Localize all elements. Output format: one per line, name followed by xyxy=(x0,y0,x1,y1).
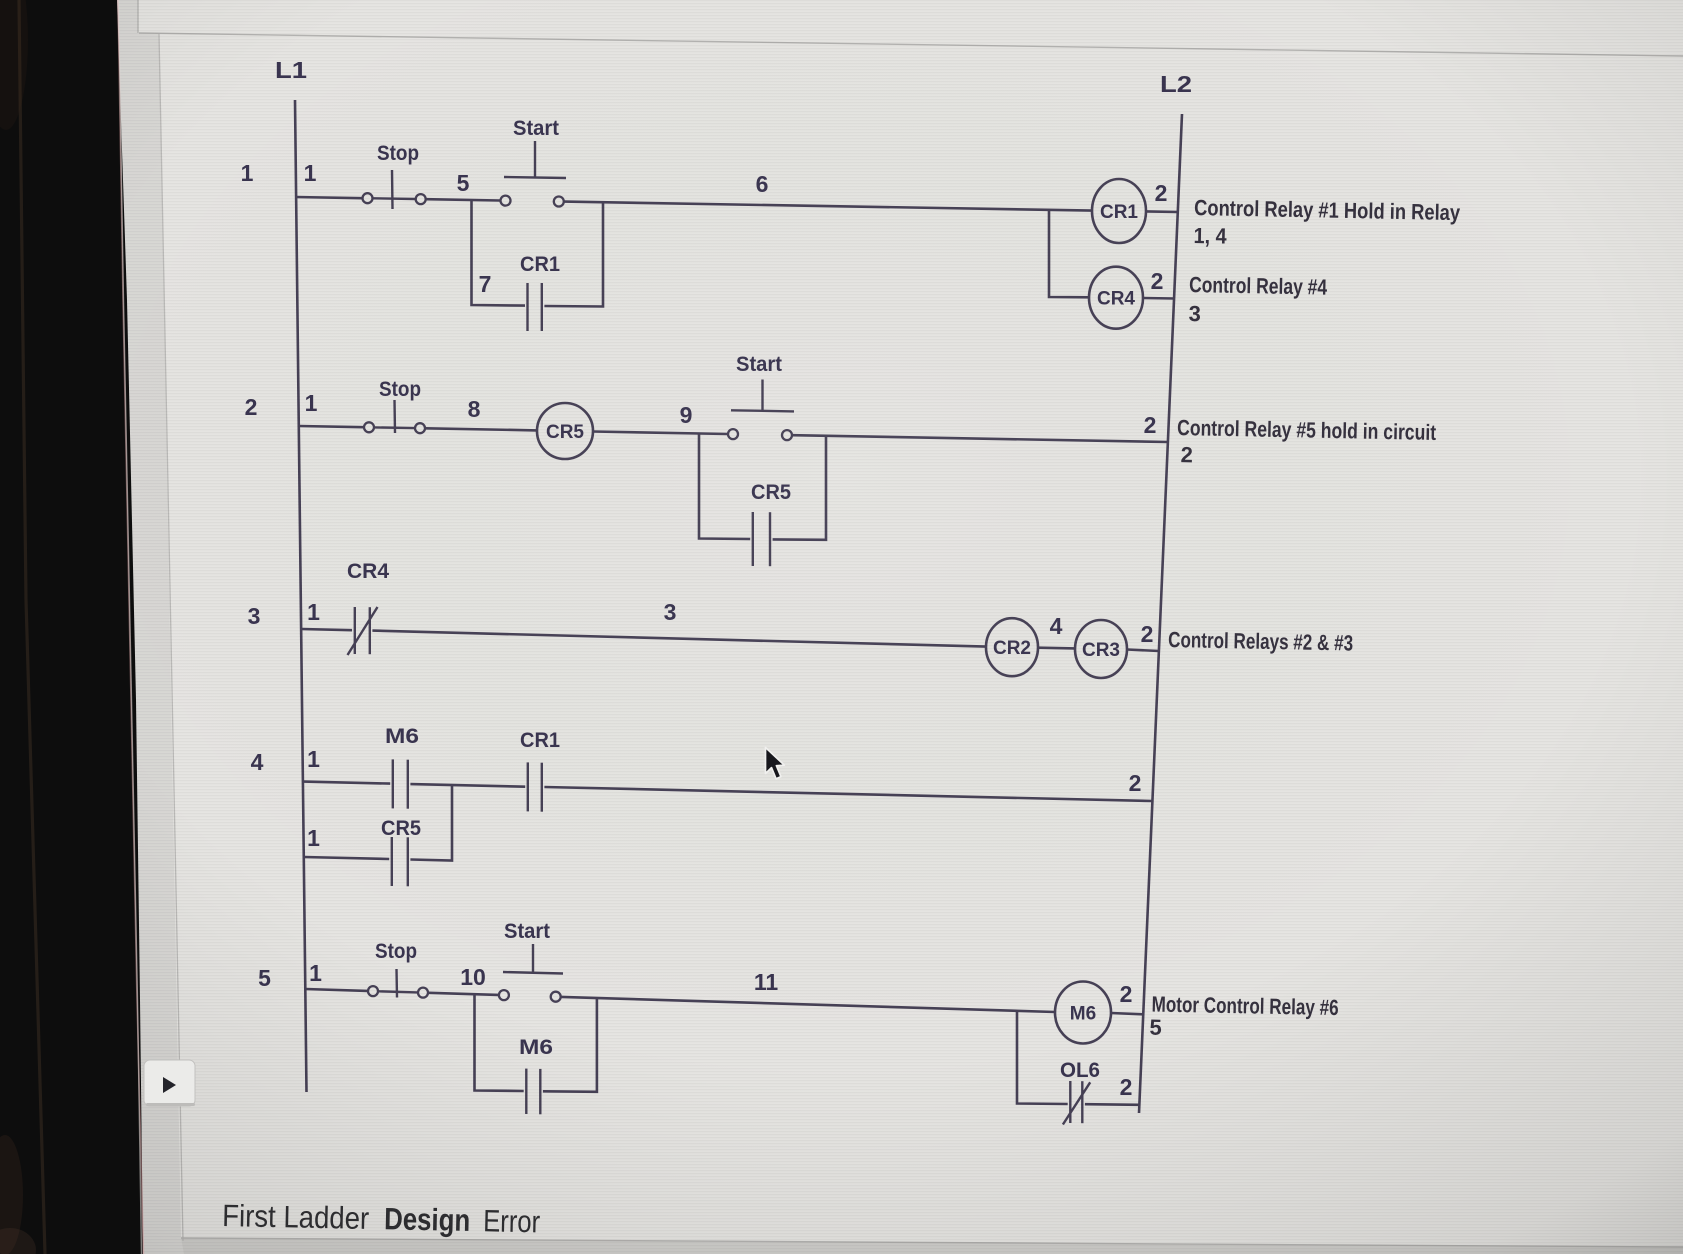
branch wire up to rung 4 xyxy=(410,785,452,861)
wire coil CR3 to L2 xyxy=(1127,650,1159,652)
branch wire down (rung 5 hold-in) xyxy=(475,994,524,1091)
contact CR5 (rung 4 branch) xyxy=(381,817,421,886)
contact CR4 NC (rung 3) xyxy=(347,560,389,655)
wire rung2 left xyxy=(299,426,364,427)
monitor bezel (black) xyxy=(0,0,143,1254)
bezel brown reflection line xyxy=(19,0,45,1254)
pushbutton Start (rung 1) xyxy=(501,117,567,207)
branch wire OL6 to L2 xyxy=(1085,1103,1139,1106)
branch wire up to rung 1 xyxy=(544,202,603,306)
pushbutton Stop (rung 2) xyxy=(364,378,425,433)
wire rung4 left xyxy=(304,782,390,784)
power rail L1 xyxy=(295,100,307,1092)
wire M6 to CR1 xyxy=(410,784,525,787)
wire coil CR4 to L2 xyxy=(1143,297,1174,300)
page left edge line xyxy=(159,34,183,1241)
wire node 4 xyxy=(1038,646,1075,649)
caption rung 3 xyxy=(1168,627,1353,656)
pushbutton Start (rung 5) xyxy=(499,920,563,1002)
wire coil M6 to L2 xyxy=(1111,1013,1143,1014)
bezel edge pink fringe xyxy=(118,0,144,1254)
bottom caption: First Ladder Design Error xyxy=(222,1198,541,1239)
sidebar expand button xyxy=(144,1060,195,1106)
contact OL6 NC (rung 5) xyxy=(1060,1059,1100,1125)
contact CR5 (hold-in, rung 2) xyxy=(751,481,791,566)
wire node 3 xyxy=(372,631,986,647)
branch wire down (node 7) xyxy=(472,200,526,306)
branch wire up to rung 5 xyxy=(543,998,597,1092)
coil CR3 xyxy=(1075,620,1127,678)
bottom strip below page xyxy=(181,1238,1683,1254)
wire rung4 right to L2 xyxy=(544,787,1152,801)
svg-text:Error: Error xyxy=(483,1203,541,1239)
wire coil CR1 to L2 xyxy=(1146,210,1178,213)
LADDER DIAGRAM xyxy=(241,57,1461,1125)
contact CR1 (rung 4) xyxy=(520,729,560,812)
caption rung 1b xyxy=(1188,272,1328,329)
branch wire to CR4 coil xyxy=(1049,210,1089,297)
window top border line xyxy=(139,33,1683,56)
mouse cursor xyxy=(766,748,785,779)
instruction circle CR5 (rung 2) xyxy=(537,403,593,459)
wire node 10 xyxy=(429,993,499,995)
branch wire down to OL6 xyxy=(1017,1011,1068,1104)
coil CR2 xyxy=(986,618,1038,676)
wire node 9 xyxy=(593,432,727,435)
wire rung5 left xyxy=(305,989,367,991)
svg-text:First Ladder: First Ladder xyxy=(222,1198,370,1236)
wire node 11 xyxy=(561,997,1055,1012)
window left border line xyxy=(137,0,139,33)
branch wire up to rung 2 xyxy=(773,436,826,540)
caption rung 1 xyxy=(1193,195,1461,253)
bezel bottom-left reflection blotch xyxy=(0,1135,23,1254)
coil CR1 xyxy=(1092,179,1146,243)
contact M6 (hold-in, rung 5) xyxy=(519,1036,553,1114)
wire node 6 xyxy=(564,202,1092,211)
caption rung 2 xyxy=(1176,415,1436,472)
coil M6 xyxy=(1055,982,1111,1044)
pushbutton Start (rung 2) xyxy=(728,353,794,440)
caption rung 5 xyxy=(1149,991,1338,1043)
bezel top-left reflection tint xyxy=(0,0,28,130)
svg-text:Design: Design xyxy=(384,1201,471,1238)
contact M6 (rung 4) xyxy=(385,725,419,809)
branch wire from L1 (rung 4) xyxy=(304,857,389,859)
screen edge glow xyxy=(119,0,142,1254)
pushbutton Stop (rung 5) xyxy=(368,940,428,998)
power rail L2 xyxy=(1139,114,1182,1113)
branch wire down (rung 2 hold-in) xyxy=(699,433,750,539)
contact CR1 (hold-in, rung 1) xyxy=(520,253,560,331)
coil CR4 xyxy=(1089,267,1143,329)
wire rung2 right to L2 xyxy=(793,435,1168,442)
wire rung3 left xyxy=(302,629,352,630)
page bottom edge line xyxy=(181,1238,1683,1247)
wire rung1 left xyxy=(295,197,362,198)
wire node 5 xyxy=(426,199,500,200)
pushbutton Stop (rung 1) xyxy=(363,142,426,209)
wire node 8 xyxy=(426,428,537,430)
